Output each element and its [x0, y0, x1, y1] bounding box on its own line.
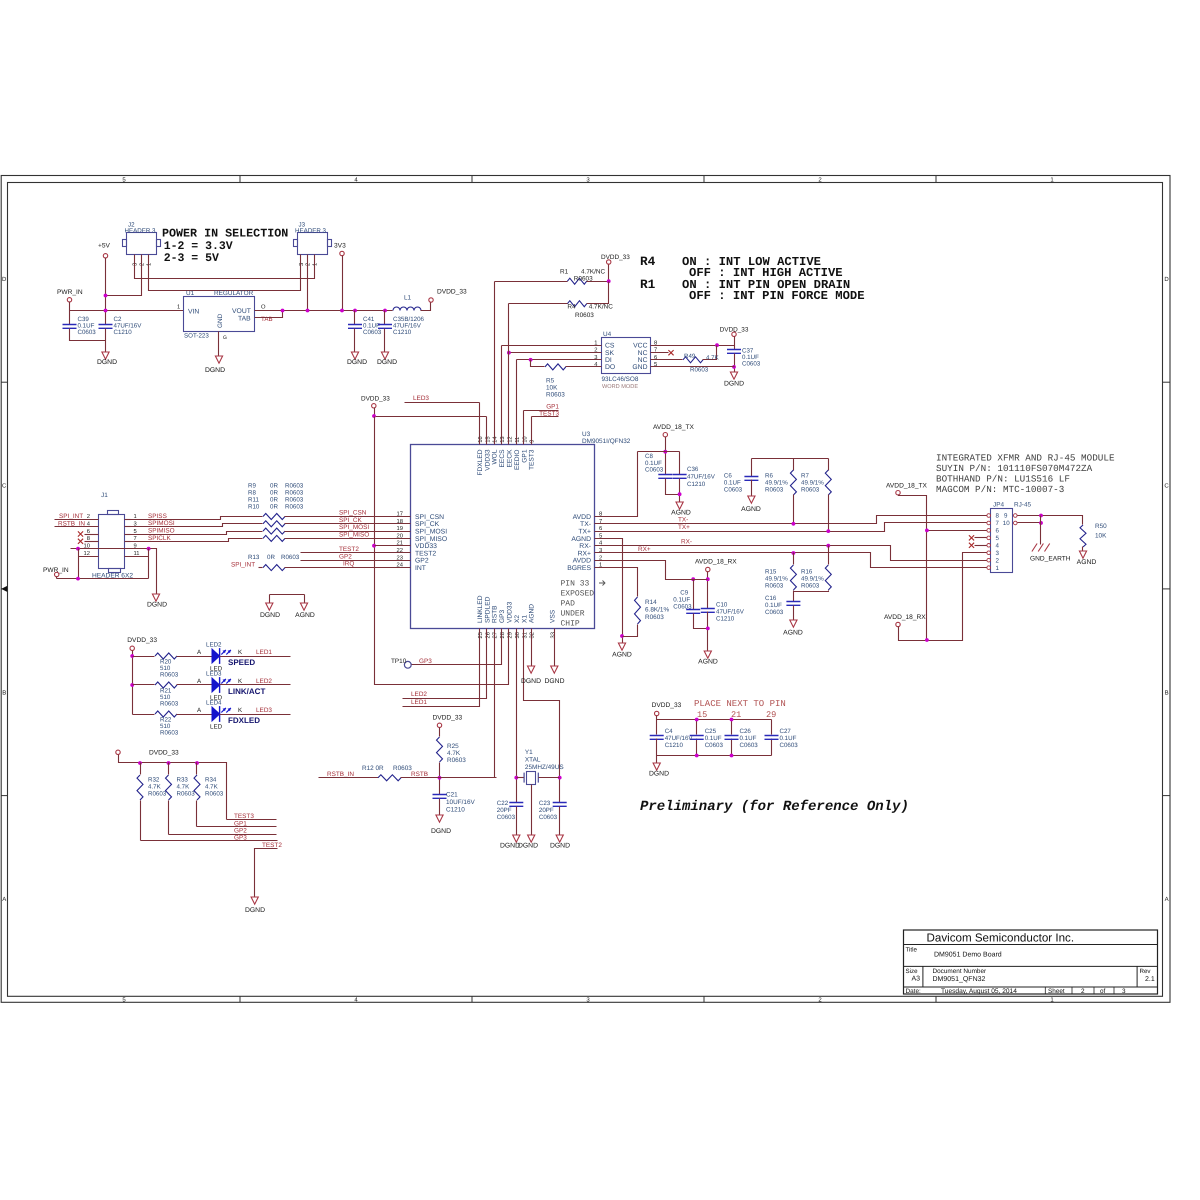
svg-text:AGND: AGND: [295, 612, 315, 619]
svg-text:SPI_MOSI: SPI_MOSI: [415, 529, 447, 536]
svg-text:16: 16: [477, 436, 484, 442]
svg-text:DVDD_33: DVDD_33: [361, 396, 390, 403]
svg-text:R9: R9: [248, 483, 256, 490]
svg-text:GND_EARTH: GND_EARTH: [1030, 556, 1071, 563]
svg-text:BOTHHAND P/N: LU1S516 LF: BOTHHAND P/N: LU1S516 LF: [936, 473, 1070, 484]
svg-text:0.1UF: 0.1UF: [724, 480, 741, 487]
svg-text:R0603: R0603: [148, 791, 167, 798]
svg-text:6.8K/1%: 6.8K/1%: [645, 607, 669, 614]
svg-text:TEST3: TEST3: [539, 411, 559, 418]
svg-text:R0603: R0603: [801, 583, 820, 590]
svg-text:TEST3: TEST3: [529, 449, 536, 470]
svg-text:EECS: EECS: [499, 449, 506, 468]
svg-text:C9: C9: [680, 590, 688, 597]
svg-text:D: D: [1164, 276, 1169, 283]
svg-text:0R: 0R: [270, 497, 278, 504]
svg-text:49.9/1%: 49.9/1%: [765, 480, 788, 487]
svg-text:EECK: EECK: [507, 449, 514, 468]
svg-text:C1210: C1210: [446, 807, 465, 814]
svg-text:U1: U1: [186, 290, 195, 297]
svg-text:UNDER: UNDER: [561, 610, 585, 619]
svg-text:A3: A3: [912, 976, 921, 983]
svg-text:LED3: LED3: [206, 671, 222, 678]
svg-text:DGND: DGND: [347, 359, 367, 366]
svg-text:C0603: C0603: [780, 742, 799, 749]
svg-text:25MHZ/49US: 25MHZ/49US: [525, 764, 564, 771]
svg-text:TX+: TX+: [678, 524, 690, 531]
svg-text:VDD33: VDD33: [507, 601, 514, 623]
svg-text:SPI_MOSI: SPI_MOSI: [339, 524, 369, 531]
svg-text:R11: R11: [248, 497, 259, 504]
svg-text:WOL: WOL: [492, 449, 499, 464]
svg-text:0.1UF: 0.1UF: [740, 735, 757, 742]
svg-text:C0603: C0603: [645, 467, 664, 474]
svg-text:R0603: R0603: [285, 504, 304, 511]
svg-text:C27: C27: [780, 728, 792, 735]
svg-text:SOT-223: SOT-223: [184, 333, 209, 340]
svg-text:R0603: R0603: [285, 490, 304, 497]
svg-text:0R: 0R: [270, 490, 278, 497]
svg-text:DGND: DGND: [431, 828, 451, 835]
svg-text:DVDD_33: DVDD_33: [601, 254, 630, 261]
svg-text:XTAL: XTAL: [525, 757, 541, 764]
svg-text:49.9/1%: 49.9/1%: [801, 576, 824, 583]
svg-text:C: C: [1164, 483, 1169, 490]
svg-text:SPDLED: SPDLED: [484, 596, 491, 623]
svg-text:DVDD_33: DVDD_33: [433, 715, 463, 722]
svg-text:R1: R1: [640, 277, 656, 292]
svg-text:GND: GND: [217, 313, 224, 328]
svg-text:LED2: LED2: [256, 678, 272, 685]
svg-text:3: 3: [134, 521, 137, 528]
svg-text:R15: R15: [765, 569, 777, 576]
svg-text:POWER IN SELECTION: POWER IN SELECTION: [162, 227, 288, 241]
svg-text:FDXLED: FDXLED: [477, 449, 484, 475]
svg-text:TX+: TX+: [578, 529, 591, 536]
svg-text:AGND: AGND: [571, 536, 591, 543]
svg-text:DVDD_33: DVDD_33: [127, 637, 157, 644]
svg-text:C16: C16: [765, 595, 777, 602]
svg-text:TEST2: TEST2: [415, 550, 436, 557]
svg-text:29: 29: [766, 710, 776, 720]
svg-text:R6: R6: [765, 473, 773, 480]
svg-text:9: 9: [529, 440, 536, 443]
svg-text:CS: CS: [605, 343, 615, 350]
svg-text:11: 11: [515, 437, 521, 443]
svg-text:1: 1: [134, 514, 137, 520]
svg-text:JP4: JP4: [993, 502, 1004, 509]
svg-text:C23: C23: [539, 800, 551, 807]
svg-text:C21: C21: [446, 792, 458, 799]
svg-text:4.7K: 4.7K: [148, 784, 162, 791]
svg-text:DGND: DGND: [724, 381, 744, 388]
svg-text:AGND: AGND: [741, 506, 761, 513]
svg-text:DGND: DGND: [97, 359, 117, 366]
svg-text:49.9/1%: 49.9/1%: [801, 480, 824, 487]
svg-text:B: B: [1165, 689, 1169, 696]
svg-text:LED: LED: [210, 724, 223, 731]
svg-text:LED1: LED1: [411, 699, 427, 706]
svg-text:93LC46/SO8: 93LC46/SO8: [602, 376, 639, 383]
svg-text:Title: Title: [906, 947, 918, 954]
svg-text:C0603: C0603: [705, 742, 724, 749]
svg-text:DVDD_33: DVDD_33: [437, 289, 467, 296]
svg-text:R7: R7: [801, 473, 809, 480]
svg-text:R10: R10: [248, 504, 260, 511]
svg-text:HEADER 3: HEADER 3: [295, 227, 327, 234]
svg-text:O: O: [261, 304, 266, 311]
svg-text:0.1UF: 0.1UF: [705, 735, 722, 742]
svg-text:DGND: DGND: [518, 843, 538, 850]
svg-text:BGRES: BGRES: [567, 565, 591, 572]
svg-text:C26: C26: [740, 728, 752, 735]
svg-text:Davicom Semiconductor Inc.: Davicom Semiconductor Inc.: [927, 932, 1075, 945]
svg-text:RSTB: RSTB: [411, 771, 428, 778]
svg-text:LED2: LED2: [411, 691, 427, 698]
svg-text:0R: 0R: [270, 483, 278, 490]
svg-text:VDD33: VDD33: [484, 449, 491, 471]
svg-text:C0603: C0603: [742, 361, 761, 368]
svg-text:LED3: LED3: [256, 707, 272, 714]
svg-text:LED4: LED4: [206, 700, 222, 707]
svg-text:C36: C36: [687, 466, 699, 473]
svg-text:SPI_CK: SPI_CK: [339, 517, 362, 524]
svg-text:C0603: C0603: [765, 609, 784, 616]
svg-text:C1210: C1210: [114, 329, 133, 336]
svg-text:LINK/ACT: LINK/ACT: [228, 687, 265, 696]
svg-text:5: 5: [654, 362, 657, 368]
svg-text:Size: Size: [906, 968, 919, 975]
svg-text:49.9/1%: 49.9/1%: [765, 576, 788, 583]
svg-text:SPI_CSN: SPI_CSN: [339, 510, 367, 517]
svg-text:SPIMOSI: SPIMOSI: [148, 520, 175, 527]
svg-text:R0603: R0603: [285, 483, 304, 490]
svg-text:NC: NC: [638, 357, 648, 364]
svg-text:LED1: LED1: [256, 649, 272, 656]
svg-text:SPI_CK: SPI_CK: [415, 521, 440, 528]
svg-text:LINKLED: LINKLED: [477, 595, 484, 623]
svg-text:DGND: DGND: [550, 843, 570, 850]
svg-text:SPI_CSN: SPI_CSN: [415, 514, 444, 521]
svg-text:L1: L1: [404, 295, 412, 302]
svg-text:OFF : INT PIN FORCE MODE: OFF : INT PIN FORCE MODE: [689, 289, 865, 303]
svg-text:SPI_MISO: SPI_MISO: [339, 531, 369, 538]
svg-text:GP2: GP2: [339, 553, 352, 560]
svg-text:10K: 10K: [546, 385, 558, 392]
svg-text:RX+: RX+: [638, 546, 651, 553]
svg-text:TX-: TX-: [580, 521, 591, 528]
svg-text:C0603: C0603: [724, 487, 743, 494]
svg-text:Sheet: Sheet: [1048, 988, 1065, 995]
svg-text:4.7K/NC: 4.7K/NC: [581, 269, 606, 276]
svg-text:2: 2: [996, 557, 1000, 564]
svg-text:TX-: TX-: [678, 517, 688, 524]
svg-text:0.1UF: 0.1UF: [673, 597, 690, 604]
svg-text:9: 9: [1004, 513, 1008, 520]
svg-text:of: of: [1100, 988, 1106, 995]
svg-text:R0603: R0603: [765, 487, 784, 494]
svg-text:DVDD_33: DVDD_33: [149, 750, 179, 757]
svg-text:LED2: LED2: [206, 642, 222, 649]
svg-text:SUYIN P/N: 101110FS070M472ZA: SUYIN P/N: 101110FS070M472ZA: [936, 463, 1093, 474]
svg-text:AVDD_18_RX: AVDD_18_RX: [695, 559, 737, 566]
svg-text:Document Number: Document Number: [933, 968, 988, 975]
svg-text:TP10: TP10: [391, 658, 407, 665]
svg-text:47UF/16V: 47UF/16V: [687, 474, 716, 481]
svg-text:C6: C6: [724, 473, 732, 480]
svg-text:C22: C22: [497, 800, 509, 807]
svg-text:R0603: R0603: [801, 487, 820, 494]
svg-text:11: 11: [134, 551, 140, 557]
svg-text:4.7K: 4.7K: [447, 750, 461, 757]
svg-text:VIN: VIN: [188, 309, 199, 316]
svg-text:R50: R50: [1095, 523, 1107, 530]
svg-text:27: 27: [492, 632, 499, 638]
svg-text:4.7K: 4.7K: [177, 784, 191, 791]
svg-text:Date:: Date:: [906, 988, 921, 995]
svg-text:3V3: 3V3: [334, 243, 346, 250]
svg-text:30: 30: [514, 632, 521, 638]
svg-text:R4: R4: [567, 304, 576, 311]
svg-text:R0603: R0603: [205, 791, 224, 798]
svg-text:R16: R16: [801, 569, 813, 576]
svg-text:REGULATOR: REGULATOR: [214, 290, 254, 297]
svg-text:GP3: GP3: [419, 658, 432, 665]
svg-text:31: 31: [521, 632, 528, 638]
svg-text:14: 14: [493, 436, 499, 443]
svg-text:DGND: DGND: [205, 367, 225, 374]
svg-text:EEDIO: EEDIO: [514, 450, 521, 471]
svg-text:C25: C25: [705, 728, 717, 735]
svg-text:25: 25: [477, 632, 484, 638]
svg-text:GP1: GP1: [521, 449, 528, 463]
svg-text:0.1UF: 0.1UF: [780, 735, 797, 742]
svg-text:C: C: [2, 483, 7, 490]
svg-text:C0603: C0603: [78, 329, 97, 336]
svg-text:VSS: VSS: [549, 609, 556, 623]
svg-text:INT: INT: [415, 565, 426, 572]
svg-text:1: 1: [313, 263, 319, 266]
svg-text:DGND: DGND: [245, 907, 265, 914]
svg-text:RX-: RX-: [579, 543, 591, 550]
svg-text:INTEGRATED XFMR AND RJ-45 MODU: INTEGRATED XFMR AND RJ-45 MODULE: [936, 452, 1115, 463]
svg-text:8: 8: [996, 513, 1000, 520]
svg-text:R34: R34: [205, 777, 217, 784]
svg-text:VCC: VCC: [633, 343, 647, 350]
svg-text:RSTB: RSTB: [492, 605, 499, 623]
svg-text:VOUT: VOUT: [232, 308, 251, 315]
svg-text:10: 10: [1003, 520, 1010, 527]
svg-text:6: 6: [87, 528, 90, 535]
svg-text:SPICLK: SPICLK: [148, 535, 171, 542]
svg-text:DGND: DGND: [544, 678, 564, 685]
svg-text:X1: X1: [521, 615, 528, 623]
svg-text:AGND: AGND: [529, 604, 536, 623]
svg-text:IRQ: IRQ: [343, 561, 354, 568]
svg-text:R0603: R0603: [160, 701, 179, 708]
svg-text:12: 12: [507, 436, 514, 442]
svg-text:2: 2: [1081, 988, 1085, 995]
svg-text:4.7K/NC: 4.7K/NC: [589, 304, 614, 311]
svg-text:C0603: C0603: [673, 604, 692, 611]
svg-text:Tuesday, August 05, 2014: Tuesday, August 05, 2014: [941, 988, 1017, 995]
svg-text:SPI_INT: SPI_INT: [231, 562, 255, 569]
svg-text:DM9051 Demo Board: DM9051 Demo Board: [934, 951, 1002, 959]
svg-text:GP3: GP3: [499, 609, 506, 623]
svg-text:R12 0R: R12 0R: [362, 765, 384, 772]
svg-text:DGND: DGND: [147, 602, 167, 609]
svg-text:SK: SK: [605, 350, 615, 357]
svg-text:2-3 = 5V: 2-3 = 5V: [164, 252, 219, 265]
svg-text:SPEED: SPEED: [228, 658, 255, 667]
svg-text:C0603: C0603: [740, 742, 759, 749]
svg-text:C1210: C1210: [716, 616, 735, 623]
svg-text:C1210: C1210: [665, 742, 684, 749]
svg-text:4: 4: [996, 543, 1000, 550]
svg-text:2.1: 2.1: [1145, 976, 1155, 983]
svg-text:DO: DO: [605, 364, 615, 371]
svg-text:1: 1: [177, 305, 180, 311]
svg-text:10UF/16V: 10UF/16V: [446, 799, 476, 806]
svg-text:4.7K: 4.7K: [706, 355, 720, 362]
svg-text:A: A: [2, 896, 6, 903]
svg-text:C1210: C1210: [393, 329, 412, 336]
svg-text:26: 26: [484, 632, 491, 638]
svg-text:D: D: [2, 276, 7, 283]
svg-text:MAGCOM P/N: MTC-10007-3: MAGCOM P/N: MTC-10007-3: [936, 484, 1064, 495]
svg-text:AVDD: AVDD: [573, 514, 591, 521]
svg-text:C4: C4: [665, 728, 673, 735]
svg-text:R0603: R0603: [575, 312, 594, 319]
svg-text:SPI_MISO: SPI_MISO: [415, 536, 447, 543]
svg-text:GP1: GP1: [234, 820, 247, 827]
svg-text:10: 10: [521, 436, 528, 442]
svg-text:R25: R25: [447, 743, 459, 750]
svg-text:7: 7: [996, 520, 1000, 527]
svg-text:47UF/16V: 47UF/16V: [665, 735, 694, 742]
svg-text:G: G: [223, 335, 227, 341]
svg-text:4.7K: 4.7K: [205, 784, 219, 791]
svg-text:PLACE NEXT TO PIN: PLACE NEXT TO PIN: [694, 699, 786, 709]
svg-text:32: 32: [529, 632, 536, 638]
svg-text:GP2: GP2: [415, 558, 429, 565]
svg-text:DGND: DGND: [649, 771, 669, 778]
svg-text:AVDD_18_TX: AVDD_18_TX: [886, 483, 928, 490]
svg-text:Preliminary (for Reference Onl: Preliminary (for Reference Only): [640, 799, 909, 815]
svg-text:+5V: +5V: [98, 243, 111, 250]
svg-text:U4: U4: [603, 331, 612, 338]
svg-text:R14: R14: [645, 599, 657, 606]
svg-text:DI: DI: [605, 357, 612, 364]
svg-text:R1: R1: [560, 269, 569, 276]
svg-text:R0603: R0603: [447, 757, 466, 764]
svg-text:TEST3: TEST3: [234, 813, 254, 820]
svg-text:AGND: AGND: [671, 510, 691, 517]
svg-text:TEST2: TEST2: [339, 546, 359, 553]
svg-text:A: A: [1165, 896, 1169, 903]
svg-text:GND: GND: [632, 364, 647, 371]
svg-text:RX-: RX-: [681, 539, 692, 546]
svg-text:28: 28: [499, 632, 506, 638]
svg-text:R0603: R0603: [765, 583, 784, 590]
svg-text:5: 5: [134, 529, 137, 535]
svg-text:WORD MODE: WORD MODE: [602, 384, 638, 390]
svg-text:1: 1: [146, 263, 152, 266]
svg-text:0R: 0R: [267, 554, 275, 561]
svg-text:AGND: AGND: [612, 652, 632, 659]
svg-text:DGND: DGND: [377, 359, 397, 366]
svg-text:C10: C10: [716, 602, 728, 609]
svg-text:CHIP: CHIP: [561, 620, 580, 629]
svg-text:10K: 10K: [1095, 533, 1107, 540]
svg-text:1: 1: [996, 565, 1000, 572]
svg-text:C0603: C0603: [497, 814, 516, 821]
svg-text:R0603: R0603: [160, 672, 179, 679]
svg-text:EXPOSED: EXPOSED: [561, 590, 595, 599]
svg-text:SPIMISO: SPIMISO: [148, 528, 175, 535]
svg-text:R0603: R0603: [645, 614, 664, 621]
svg-text:LED3: LED3: [413, 395, 429, 402]
svg-text:R32: R32: [148, 777, 160, 784]
svg-text:3: 3: [298, 263, 305, 266]
svg-text:R5: R5: [546, 378, 555, 385]
svg-text:DVDD_33: DVDD_33: [652, 702, 682, 709]
svg-text:5: 5: [996, 535, 1000, 542]
svg-text:VDD33: VDD33: [415, 543, 437, 550]
svg-text:R0603: R0603: [160, 730, 179, 737]
svg-text:AGND: AGND: [1077, 559, 1097, 566]
svg-text:AGND: AGND: [783, 630, 803, 637]
svg-text:R8: R8: [248, 490, 256, 497]
svg-text:AVDD_18_RX: AVDD_18_RX: [884, 614, 926, 621]
svg-text:6: 6: [996, 528, 1000, 535]
svg-text:20PF: 20PF: [497, 807, 512, 814]
svg-text:PAD: PAD: [561, 600, 576, 609]
svg-text:15: 15: [697, 710, 707, 720]
svg-text:R0603: R0603: [281, 554, 300, 561]
svg-text:R13: R13: [248, 554, 260, 561]
svg-text:DVDD_33: DVDD_33: [720, 327, 749, 334]
svg-text:R0603: R0603: [177, 791, 196, 798]
svg-text:U3: U3: [582, 431, 591, 438]
svg-text:0R: 0R: [270, 504, 278, 511]
svg-text:7: 7: [134, 536, 137, 542]
svg-text:R4: R4: [640, 254, 656, 269]
svg-text:NC: NC: [638, 350, 648, 357]
svg-text:R0603: R0603: [574, 276, 593, 283]
svg-text:R0603: R0603: [690, 367, 709, 374]
svg-text:R0603: R0603: [546, 392, 565, 399]
svg-text:3: 3: [132, 263, 139, 266]
svg-text:47UF/16V: 47UF/16V: [716, 609, 745, 616]
svg-text:R49: R49: [684, 353, 696, 360]
svg-text:RX+: RX+: [578, 550, 591, 557]
svg-text:PWR_IN: PWR_IN: [57, 289, 83, 296]
svg-text:C0603: C0603: [539, 814, 558, 821]
svg-text:PIN 33: PIN 33: [561, 580, 590, 589]
svg-text:0.1UF: 0.1UF: [765, 602, 782, 609]
svg-text:AVDD_18_TX: AVDD_18_TX: [653, 424, 695, 431]
svg-text:RJ-45: RJ-45: [1014, 502, 1031, 509]
svg-text:29: 29: [507, 632, 514, 638]
svg-text:J1: J1: [101, 492, 108, 499]
svg-text:AGND: AGND: [698, 659, 718, 666]
svg-text:12: 12: [84, 550, 90, 557]
svg-text:DM9051_QFN32: DM9051_QFN32: [933, 976, 986, 983]
svg-text:3: 3: [1122, 988, 1126, 995]
svg-text:C1210: C1210: [687, 481, 706, 488]
svg-text:Rev: Rev: [1140, 968, 1152, 975]
